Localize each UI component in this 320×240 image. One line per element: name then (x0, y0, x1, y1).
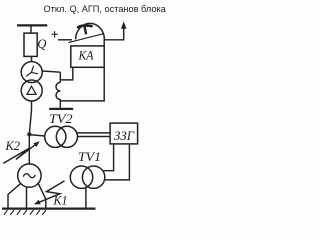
earth bus (2, 207, 96, 209)
svg-text:К2: К2 (5, 138, 21, 153)
voltage transformer TV1 (70, 166, 92, 188)
svg-text:Откл. Q, АГП, останов блока: Откл. Q, АГП, останов блока (44, 4, 167, 14)
ground (earth bar) (49, 108, 73, 110)
breaker Q (24, 33, 37, 56)
arrow to tripping (121, 22, 127, 29)
wire: KA output to arrow (104, 27, 123, 40)
wire: TV1 to ZZG lower (104, 144, 129, 180)
svg-text:К1: К1 (53, 193, 68, 208)
wire: KA coil lead left (60, 67, 73, 80)
wire: node to TV2 (29, 135, 45, 136)
generator middle leg (26, 187, 28, 208)
relay ZZG box (110, 123, 138, 144)
wire: neutral vertical (59, 72, 61, 108)
wire: transformer neutral to grounding winding (42, 71, 60, 72)
wire: KA coil lead right (60, 67, 104, 101)
wire: TV1 to earth (85, 188, 87, 208)
relay KA dome (76, 23, 105, 39)
wire: TV1 to ZZG upper (103, 144, 114, 171)
wire: dome to box right edge (103, 39, 105, 46)
generator right leg (38, 183, 46, 209)
delta symbol (27, 86, 36, 94)
transformer T winding 2 (delta) (21, 80, 42, 101)
fault K1 lightning arrow (37, 181, 65, 203)
wire (30, 26, 32, 33)
current transformer winding in neutral (56, 82, 60, 99)
svg-text:ТV2: ТV2 (49, 112, 73, 126)
transformer T winding 1 (star) (21, 62, 42, 83)
svg-text:КА: КА (78, 48, 94, 63)
node: TV2 tap junction (27, 132, 31, 136)
relay KA body (71, 46, 104, 67)
svg-text:ТV1: ТV1 (78, 150, 101, 164)
generator G (18, 164, 41, 187)
earth hatching (4, 210, 46, 215)
svg-text:ЗЗГ: ЗЗГ (114, 128, 135, 143)
star symbol (26, 66, 38, 77)
relay KA T element (77, 26, 92, 28)
wire: main line transformer to generator (29, 101, 31, 164)
generator left leg (8, 184, 21, 209)
fault K2 lightning arrow (3, 143, 37, 163)
bus bar (system busbar T symbol) (17, 24, 47, 26)
wire (58, 39, 72, 41)
generator tilde (23, 174, 35, 178)
wire (31, 56, 33, 61)
voltage transformer TV2 (45, 126, 66, 147)
relay KA armature line (69, 34, 105, 43)
wire: TV2 to ZZG double line (77, 133, 110, 137)
svg-text:Q: Q (37, 37, 46, 51)
plus polarity lead (52, 31, 58, 37)
